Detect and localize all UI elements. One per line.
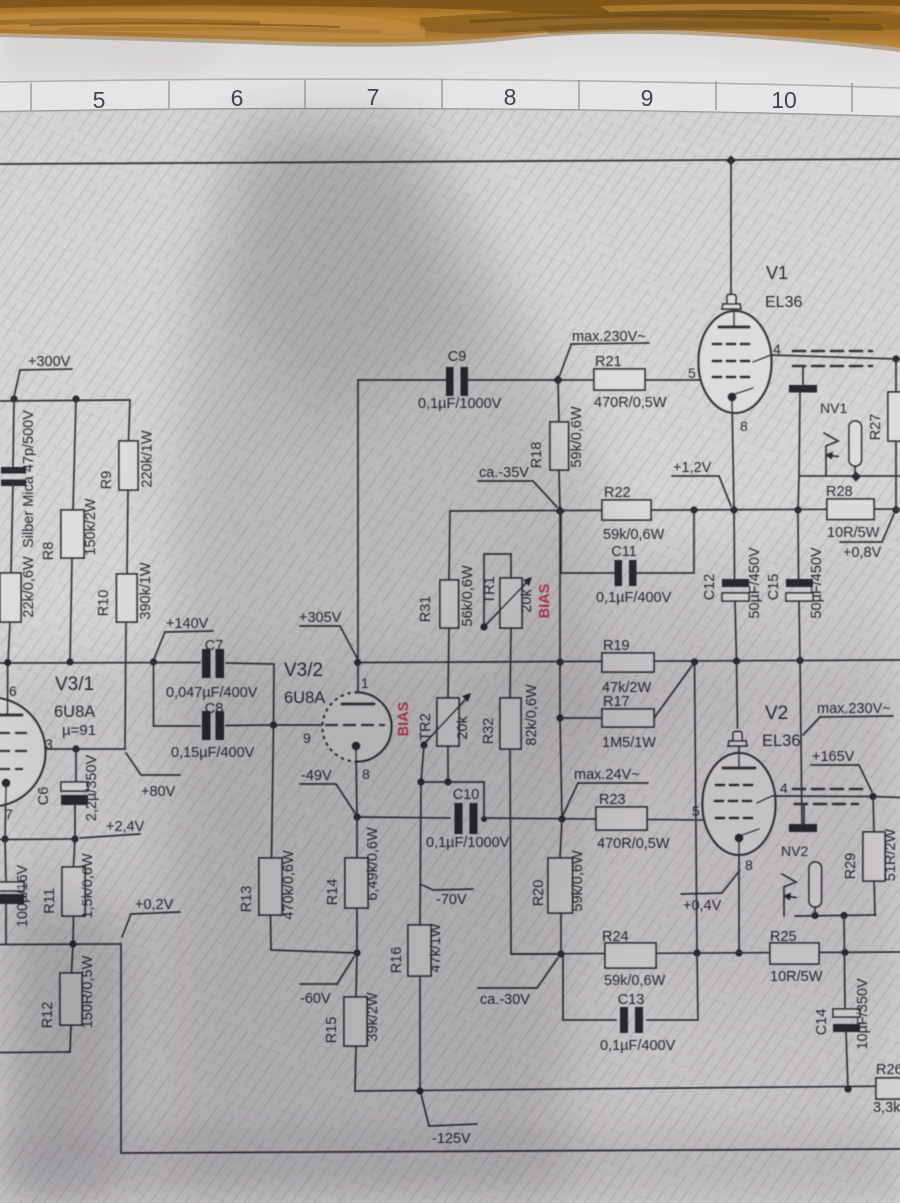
label R10 value [138,562,154,620]
tube V3/1 anode bar [0,700,22,715]
label R29 value [883,829,899,882]
label R13 [239,886,255,913]
tube V3/1 pin 6 label [9,683,17,699]
tube V2 envelope [703,753,776,855]
label C6 [36,787,52,806]
ruler band [0,79,900,117]
node bias-C10 junction [558,815,565,822]
node TR2 wiper junction [417,778,424,785]
resistor R16 [408,925,431,976]
tube V3/1 grid dashes [0,733,26,769]
beam plate bar V1 [789,385,817,393]
label R12 value [80,955,96,1028]
wire R17 right lead [654,663,694,718]
wire R27 top [895,359,897,392]
wire V2 anode-cap drop [737,661,738,728]
wire bias rail to R17 [559,662,561,718]
node V3/2 anode junction [354,659,361,666]
label C9 value [418,396,502,412]
node C7 left junction [150,658,157,665]
label C12 value [747,547,763,619]
node C15 top junction [794,506,801,513]
label C6 value [84,754,100,821]
capacitor C15 minus plate [786,593,813,601]
label R24 [602,929,629,945]
svg-text:7: 7 [367,84,380,110]
label R23 [599,792,626,808]
label BIAS 1 [537,583,553,618]
wire grid column [420,782,421,925]
tube V1 pin 5 label [688,365,696,381]
wire C9 row left [358,379,446,381]
callout +305V [299,610,357,658]
label R16 [389,947,405,974]
label V1 [766,263,788,283]
node bias link junction [481,816,487,822]
wire 22k bottom lead [8,622,10,662]
node plate row left junction [4,659,11,666]
wire R32 bottom [510,749,561,954]
node ground row junction [69,940,76,947]
label R21 value [594,395,667,411]
node V3/2 cathode junction [353,813,360,820]
tube V2 pin 8 label [745,857,753,873]
wire ground row [0,943,121,946]
wire bottom return rail [121,1149,900,1153]
resistor R17 [602,709,654,727]
tube V3/2 envelope [323,693,392,762]
label TR2 [418,713,434,740]
node R14-R15 junction [353,949,360,956]
node NV1-rail junction [851,472,861,482]
label V2 [765,703,788,724]
tube V3/2 anode bar [342,702,374,705]
node V2 cap junction [733,657,740,664]
callout +1,2V [672,460,731,506]
label R11 value [80,853,96,919]
wire C8 to pin9 [274,724,323,726]
tube V1 pin 4 label [773,341,781,357]
label 22k value [21,556,37,618]
callout ca.-30V [478,958,558,1008]
resistor R24 [605,943,656,968]
resistor R9 [119,441,138,490]
resistor R29 [863,832,885,881]
wire R14 top lead [356,817,358,858]
label V3/2 [284,660,323,681]
node TR1 wiper [480,623,487,630]
resistor R32 [500,698,521,749]
label V3/1 type [54,703,95,721]
wire R8 bottom lead [70,558,72,662]
label V2 type EL36 [762,732,801,750]
wire V2 cathode drop [738,842,740,953]
node top-rail junction [726,156,736,166]
resistor R11 [62,867,85,916]
label R15 value [365,992,381,1041]
wire TR1-R32 link [510,628,511,698]
capacitor C6 plus plate [61,782,88,791]
wire V1 beam dashed lower [793,365,872,368]
svg-text:470R/0,5W: 470R/0,5W [594,395,667,411]
tube V2 grid dashes [715,785,757,818]
wire R31-TR2 link [448,628,449,698]
tube V3/2 grid dashes [326,724,384,727]
tube V1 pin 8 label [740,418,748,434]
wire NV2 bottom lead [814,907,816,916]
tube V2 anode [723,747,755,768]
capacitor C12 minus plate [722,593,749,601]
node NV2 bottom junction [811,912,818,919]
label C11 [611,544,637,560]
wire R31 top lead [449,511,450,580]
wire C6 top lead [75,749,77,782]
tube V1 anode [719,310,749,327]
wire C11 right [637,510,694,573]
wire V1 screen continue [896,358,900,360]
callout max.230V left [558,329,649,380]
callout +140V [154,616,213,659]
label R32 value [524,684,540,746]
trimmer TR1 [500,578,522,628]
tube V3/2 cathode [352,742,361,751]
svg-text:8: 8 [740,418,748,434]
label V3/1 mu [62,722,96,739]
lamp NV2 [809,862,822,907]
label R28 [826,484,853,500]
capacitor C9 [446,367,468,396]
wire R9 top lead [129,400,131,441]
wire R15 bottom lead [355,1046,356,1091]
wire V2 screen exit [757,796,873,803]
trimmer TR1 arrow [483,577,532,628]
wire C13 right [647,953,698,1020]
tube V1 top cap [722,291,741,309]
resistor R23 [596,807,647,830]
capacitor C14 minus plate [833,1024,860,1032]
label C11 value [596,590,672,606]
callout -125V [421,1094,477,1147]
resistor R18 [550,422,569,470]
wire bias rail lower [560,718,562,819]
callout -70V [420,884,473,908]
resistor R19 [602,653,654,672]
wire C9 left drop [357,380,359,662]
label V3/1 [55,674,94,695]
wire R18 top lead [558,380,559,422]
wire R11 bottom lead [72,916,75,944]
trimmer TR2 [437,698,459,746]
wire C15 bottom lead [799,601,800,660]
wire bias rail mid [559,511,561,662]
wire NV1 rail to R28 row [798,476,799,510]
wire V2 screen continue [873,797,900,798]
arrow NV1 [824,433,838,476]
label C10 [453,787,480,803]
wire V1 beam dashed upper [793,350,872,353]
node TR2 wiper [420,741,427,748]
node pin3 junction [72,745,79,752]
trimmer TR1 wiring [484,554,511,624]
node V2 screen junction [869,793,876,800]
svg-text:220k/1W: 220k/1W [140,430,156,488]
label C15 value [809,547,825,619]
wire V1 screen exit [753,355,896,362]
label C7 value [166,685,258,701]
wire V2 beam dashed upper [793,788,862,791]
wire R29 top lead [873,797,874,833]
wire R20 bottom [560,913,562,954]
wire bias rail to R20 [560,819,562,858]
wire C7 left drop [153,662,155,726]
wire C9 row right [468,379,558,381]
wire C6 bottom lead [74,805,76,839]
wire V3/2 cathode drop [356,749,357,817]
label C15 [766,574,782,601]
wire 100u top lead [5,839,6,882]
svg-text:+1,2V: +1,2V [673,460,712,476]
label V3/2 type [284,689,325,707]
callout max.230V right [803,701,893,735]
resistor R21 [594,369,645,390]
tube V2 top cap [728,732,747,747]
wire R8 top lead [73,399,76,510]
capacitor C15 plus plate [786,579,813,587]
svg-text:R8: R8 [41,542,57,561]
capacitor C13 [620,1007,643,1033]
svg-text:390k/1W: 390k/1W [138,562,154,620]
node R22-C11 right junction [690,506,697,513]
capacitor silver mica [1,467,26,486]
tube V2 pin 5 label [692,803,700,819]
label R24 value [604,973,666,989]
wire R13 bottom lead [271,915,358,953]
wire R29 bottom lead [874,881,875,915]
svg-text:9: 9 [641,85,654,111]
resistor R28 [827,499,874,520]
wire C12 top lead [733,510,736,579]
svg-text:R9: R9 [99,471,115,490]
node R27 bottom junction [892,506,899,513]
svg-text:R28: R28 [826,484,853,500]
wire pin3 row [45,748,125,750]
wire R11 top lead [74,839,76,867]
capacitor C7 [202,649,224,678]
svg-text:8: 8 [504,84,517,110]
tube V3/1 cathode [2,779,11,788]
node bias-R17 junction [556,714,563,721]
label R13 value [281,850,297,920]
wire V1 beam bar down [799,393,800,476]
label R19 value [602,680,651,696]
resistor R8 [61,510,84,558]
wire NV2 rail [795,915,876,916]
label R27 [868,414,884,441]
callout +0,4V [681,870,740,914]
wire C7-C8 right drop [273,664,276,725]
svg-text:R22: R22 [604,485,631,501]
wire C12 bottom lead [735,601,737,661]
wire top supply rail [0,159,900,164]
wire R24 row [511,952,900,954]
wire V1 anode-cap drop [730,160,732,291]
label C13 [618,992,645,1008]
wire mica-22k link [11,483,13,573]
capacitor C14 plus plate [833,1009,860,1017]
wire R21 row [558,379,700,381]
wire NV2 tail [0,0,1,1]
tube V3/1 pin 3 label [45,736,53,752]
svg-text:NV1: NV1 [820,400,847,416]
tube V3/2 pin 1 label [361,675,369,691]
wire bias link drop [483,782,485,819]
wire screen column V2 [800,661,802,826]
label C8 [205,701,224,717]
label C9 [448,349,467,365]
resistor R26 [876,1078,900,1099]
node rail-R8 junction [72,395,79,402]
label R10 [96,590,112,617]
label R17 value [602,735,656,751]
node cathode row right junction [71,835,78,842]
label R21 [595,354,622,370]
svg-text:5: 5 [93,87,106,113]
wire C14 top lead [844,916,845,1010]
wire TR2 wiper drop [421,745,424,782]
label R31 [418,596,434,623]
node C15 bottom junction [796,657,803,664]
callout +80V [126,753,180,800]
wire C13 left [563,954,616,1020]
label TR2 value [455,716,471,740]
label C7 [205,638,224,654]
label R22 [604,485,631,501]
wire plate row left [0,662,200,665]
label R28 value [827,525,880,541]
label R26 value [873,1100,900,1116]
callout +0,8V [840,514,894,561]
tube V3/1 envelope [0,698,46,807]
label R26 [876,1062,900,1078]
label 100u value [15,864,31,927]
label R14 value [365,827,381,901]
node NV2 rail-R25 junction [840,912,847,919]
wire C11 left [561,511,614,573]
label TR1 value [519,589,535,613]
resistor R31 [440,580,459,628]
wire R17 left lead [560,717,602,719]
resistor R10 [117,574,138,622]
wire NV1 rail [799,475,900,477]
label C12 [702,574,718,601]
node -125V junction [416,1087,423,1094]
resistor R12 [60,973,82,1025]
svg-text:EL36: EL36 [765,294,802,311]
callout +165V [811,749,872,792]
wire V1 cathode drop [732,401,734,510]
label R18 [529,442,545,469]
resistor R20 [548,858,573,913]
node bias-R19 junction [556,658,563,665]
label R9 value [140,430,156,488]
node R22 left junction [555,506,565,516]
svg-text:5: 5 [688,365,696,381]
label R20 [531,880,547,907]
tube V3/2 pin 9 label [303,730,311,746]
label R32 [481,718,497,745]
label R25 value [770,969,823,985]
node V1 cathode junction [730,506,737,513]
wire 100u bottom lead [5,904,7,944]
label R11 [42,888,58,914]
label C8 value [171,745,255,761]
wire R15 top lead [356,953,357,997]
callout +300V [14,354,72,397]
wire V2 beam dashed lower [795,803,858,806]
wire V3/1 cathode drop [5,787,6,839]
label R8 value [83,498,99,556]
resistor 22k [0,573,21,622]
svg-text:R21: R21 [595,354,622,370]
wire R12 bottom lead [70,1025,71,1052]
resistor R25 [770,943,819,964]
wire R14 bottom lead [356,908,358,953]
label R12 [40,1002,56,1029]
callout -60V [300,957,354,1007]
capacitor C12 plus plate [722,579,749,587]
capacitor C8 [202,711,224,740]
wire R12 return [0,1051,70,1054]
tube V1 envelope [699,311,772,413]
resistor R15 [344,997,367,1046]
resistor R13 [259,858,282,915]
resistor R27 [888,392,900,441]
label R8 [41,542,57,561]
wire R27 bottom [895,441,897,510]
label R19 [603,638,630,654]
arrow NV2 [782,874,796,916]
node R24 right junction [693,949,700,956]
label C14 [814,1009,830,1036]
wire R12 top lead [72,944,74,973]
wire C10 row right [482,818,704,820]
wire right column mid [695,662,698,953]
node plate row R8 junction [66,658,73,665]
label R20 value [570,850,586,912]
label R15 [324,1017,340,1044]
node V2 cathode junction [735,949,742,956]
label R25 [770,929,797,945]
label NV2 [781,843,808,859]
node C8 right junction [270,721,277,728]
label TR1 [482,576,498,603]
wire mica cap top lead [13,399,14,468]
tube V1 grid dashes [713,344,755,377]
callout -49V [300,768,355,813]
callout +0,2V [122,897,180,937]
svg-text:10: 10 [771,87,797,113]
label BIAS 2 [396,701,412,736]
lamp NV1 [849,421,862,466]
label V1 type EL36 [765,294,802,311]
node TR2 bottom junction [444,778,451,785]
capacitor C6 minus plate [61,795,88,805]
node V1 screen junction [892,355,899,362]
wire C14 bottom lead [846,1032,848,1089]
label R17 [603,694,630,710]
wire R18 bottom lead [559,470,560,511]
label C10 value [426,835,510,851]
